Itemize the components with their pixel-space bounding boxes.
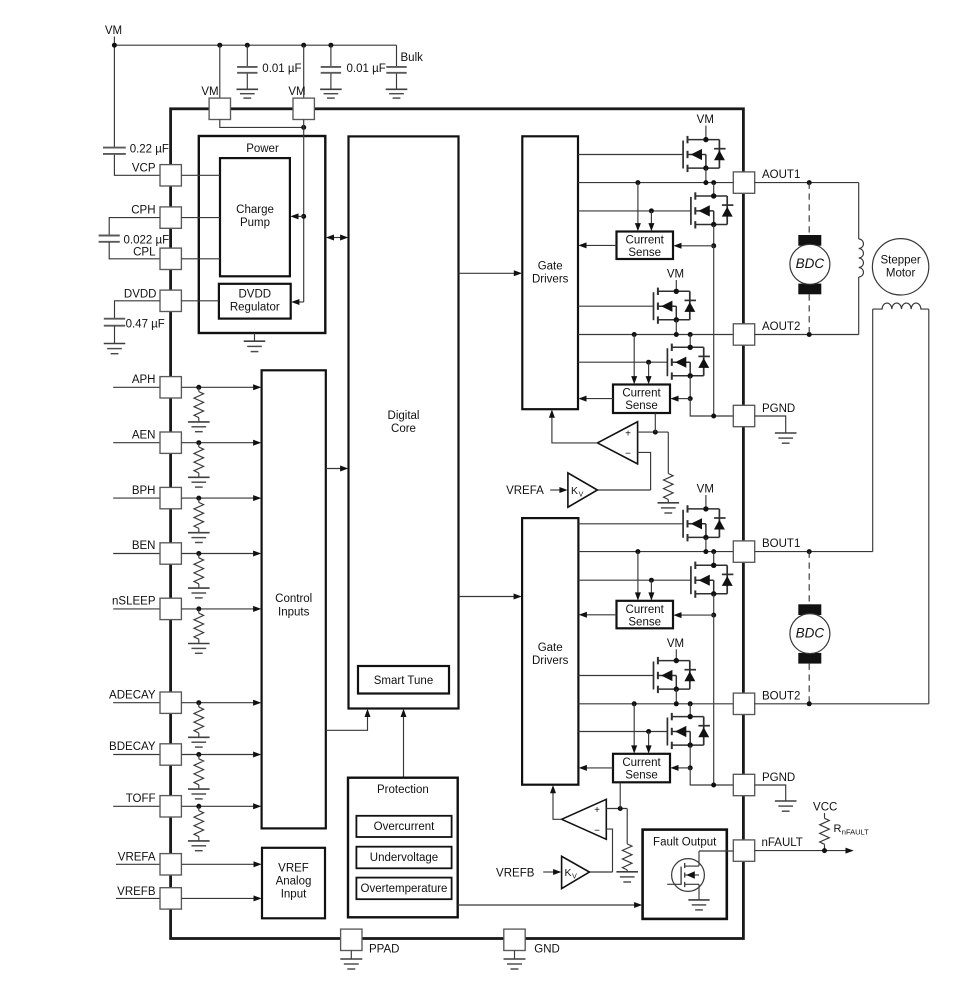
label VREFB xyxy=(117,886,156,898)
chip boundary xyxy=(171,109,744,939)
wire AEN to Control Inputs xyxy=(181,440,261,446)
svg-text:Stepper: Stepper xyxy=(880,255,920,267)
wire sense drop 2 to Current Sense B1 xyxy=(648,580,654,600)
junction AOUT2 BDC tap xyxy=(807,332,812,337)
label Bulk xyxy=(401,52,424,64)
transistor Q7 (B2 high-side) xyxy=(654,657,697,693)
junction BOUT1 at Q6 xyxy=(711,549,716,554)
label VM (Q5) xyxy=(697,484,714,496)
label AOUT2 xyxy=(762,321,800,333)
wire VREFA to VREF block xyxy=(181,861,261,867)
wire AOUT1 external xyxy=(755,182,859,184)
block Power xyxy=(199,136,325,333)
junction ADECAY pulldown xyxy=(196,700,201,705)
svg-text:ADECAY: ADECAY xyxy=(109,689,156,701)
wire VREFB external stub xyxy=(116,897,160,899)
svg-text:BOUT2: BOUT2 xyxy=(762,690,800,702)
pad BOUT1 xyxy=(733,541,754,562)
block Undervoltage xyxy=(356,847,451,869)
wire sense drop 1 to Current Sense B1 xyxy=(635,552,641,601)
wire GND ground stem xyxy=(514,951,516,960)
junction comparator B plus xyxy=(618,806,623,811)
label Overcurrent xyxy=(374,821,436,833)
wire Q2 source to Current Sense A1 xyxy=(673,243,713,249)
gain block Kv A xyxy=(568,473,598,507)
pad VCP xyxy=(160,165,181,186)
wire dashed BDC A bottom xyxy=(808,294,810,334)
wire BOUT1 external xyxy=(755,551,873,553)
gain block Kv B xyxy=(562,856,590,888)
resistor nSLEEP pulldown xyxy=(194,609,204,644)
transistor Q4 (A2 low-side) xyxy=(667,344,710,380)
junction BOUT2 at Q8 xyxy=(688,701,693,706)
wire Current Sense A2 to Gate Drivers xyxy=(578,396,613,402)
block VREF Analog Input xyxy=(262,848,325,919)
label DVDD xyxy=(124,288,157,300)
wire Q8 source down xyxy=(689,745,691,768)
wire AEN external stub xyxy=(113,442,160,444)
label PPAD xyxy=(369,944,399,956)
svg-text:BPH: BPH xyxy=(132,485,156,497)
pad VM2 xyxy=(293,98,314,119)
pad AOUT1 xyxy=(733,172,754,193)
junction AOUT2 sense drop xyxy=(632,332,637,337)
label Charge Pump xyxy=(236,204,274,229)
wire Q8 source to PGND line xyxy=(690,768,733,785)
svg-text:R: R xyxy=(834,823,842,835)
wire VM stub Q5 xyxy=(705,495,707,509)
wire VREFB to VREF block xyxy=(181,895,261,901)
block Current Sense B1 xyxy=(617,601,674,629)
junction VM bus at C1 xyxy=(245,43,250,48)
svg-text:+: + xyxy=(625,429,631,440)
wire ADECAY external stub xyxy=(113,702,160,704)
transistor Q5 (B1 high-side) xyxy=(683,505,726,541)
transistor Q9 fault output xyxy=(667,851,704,900)
svg-text:BDECAY: BDECAY xyxy=(109,741,156,753)
wire BPH to Control Inputs xyxy=(181,495,261,501)
svg-text:+: + xyxy=(594,805,600,816)
svg-text:Drivers: Drivers xyxy=(532,274,569,286)
value label 0.022uF xyxy=(124,235,170,247)
junction AOUT2 at Q3 xyxy=(674,332,679,337)
wire Q6 source down xyxy=(713,594,715,615)
ground ADECAY pulldown xyxy=(188,737,210,747)
wire gate Q1 xyxy=(578,154,683,156)
wire Q8 source to Current Sense B2 xyxy=(670,765,690,771)
svg-text:VREF: VREF xyxy=(278,863,309,875)
wire gate Q7 xyxy=(578,675,653,677)
junction VM bus at VM2 pad drop xyxy=(301,43,306,48)
label GND xyxy=(534,944,560,956)
pad BPH xyxy=(160,487,181,508)
svg-text:Control: Control xyxy=(275,593,312,605)
resistor TOFF pulldown xyxy=(194,806,204,841)
svg-text:K: K xyxy=(571,485,578,497)
label Current Sense B2 xyxy=(622,757,661,782)
wire PGND B external xyxy=(755,785,786,801)
pad CPH xyxy=(160,207,181,228)
transistor Q2 (A1 low-side) xyxy=(691,192,734,228)
wire Q1 source to AOUT1 xyxy=(705,168,707,182)
label BDECAY xyxy=(109,741,156,753)
svg-text:TOFF: TOFF xyxy=(126,793,156,805)
svg-text:BEN: BEN xyxy=(132,540,156,552)
svg-text:nFAULT: nFAULT xyxy=(762,837,803,849)
wire VM stub Q1 xyxy=(705,126,707,141)
wire net BOUT1 xyxy=(578,551,733,553)
wire BOUT2 external xyxy=(755,703,929,705)
svg-text:nFAULT: nFAULT xyxy=(842,828,869,837)
svg-text:0.01 µF: 0.01 µF xyxy=(262,63,301,75)
wire AOUT1 to winding A xyxy=(858,183,860,239)
pad CPL xyxy=(160,248,181,269)
wire comparator B output to Gate Drivers xyxy=(550,785,562,819)
junction AOUT1 BDC tap xyxy=(807,180,812,185)
label VM (Q1) xyxy=(697,114,714,126)
label VM (pad 2) xyxy=(288,86,305,98)
wire sense resistor A stem xyxy=(667,432,669,473)
pad DVDD xyxy=(160,290,181,311)
label PGND A xyxy=(762,403,795,415)
junction VM at charge pump tap xyxy=(301,214,306,219)
wire Digital Core to Gate Drivers A xyxy=(459,270,523,276)
wire comparator A output to Gate Drivers xyxy=(549,410,598,443)
value label 0.47uF xyxy=(126,318,165,330)
wire comparator B plus input xyxy=(606,808,627,810)
svg-text:PPAD: PPAD xyxy=(369,944,399,956)
label Current Sense A1 xyxy=(626,235,665,260)
junction VM bus at C2 xyxy=(328,43,333,48)
wire VM stub Q7 xyxy=(675,649,677,661)
block Control Inputs xyxy=(262,370,326,828)
label nSLEEP xyxy=(112,596,156,608)
svg-text:VM: VM xyxy=(697,114,714,126)
wire Q4 source to PGND line xyxy=(690,399,733,416)
pad nFAULT xyxy=(733,840,754,861)
svg-text:Sense: Sense xyxy=(625,400,658,412)
junction Q8 source sense xyxy=(688,765,693,770)
capacitor C2 0.01uF stem xyxy=(330,45,332,89)
transistor Q6 (B1 low-side) xyxy=(691,562,734,598)
label Fault Output xyxy=(653,837,717,849)
label PGND B xyxy=(762,772,795,784)
svg-text:VREFB: VREFB xyxy=(496,868,535,880)
svg-text:CPH: CPH xyxy=(131,205,155,217)
wire VM to charge pump xyxy=(290,213,303,219)
capacitor C3 bulk plates xyxy=(386,67,406,73)
svg-text:−: − xyxy=(625,449,631,460)
wire Q2 drain from AOUT1 xyxy=(713,183,715,197)
block Current Sense A2 xyxy=(613,385,670,414)
label Power xyxy=(246,143,279,155)
capacitor C5 0.022uF plates xyxy=(99,236,120,242)
junction nFAULT at resistor xyxy=(822,848,827,853)
label Control Inputs xyxy=(275,593,312,619)
wire CPH to charge pump xyxy=(181,217,220,219)
wire Current Sense B2 to comparator B xyxy=(619,782,621,808)
junction AOUT1 at Q2 xyxy=(711,180,716,185)
svg-text:0.01 µF: 0.01 µF xyxy=(347,63,386,75)
wire gate Q3 xyxy=(578,305,654,307)
wire net AOUT1 xyxy=(578,182,733,184)
wire nSLEEP external stub xyxy=(113,608,160,610)
svg-text:VREFA: VREFA xyxy=(506,485,544,497)
wire sense drop 2 to Current Sense B2 xyxy=(646,732,652,754)
ground nSLEEP pulldown xyxy=(188,644,210,654)
wire Q6 source to PGND xyxy=(713,615,715,785)
svg-text:Sense: Sense xyxy=(625,769,658,781)
wire Q4 source to Current Sense A2 xyxy=(670,396,690,402)
label DVDD Regulator xyxy=(230,289,280,314)
svg-text:Gate: Gate xyxy=(538,642,563,654)
pad ADECAY xyxy=(160,692,181,713)
block Overtemperature xyxy=(356,878,451,900)
wire comparator B minus input xyxy=(606,829,612,872)
capacitor C1 0.01uF plates xyxy=(237,67,257,73)
ground below C2 xyxy=(320,89,342,98)
label APH xyxy=(132,374,156,386)
capacitor C1 0.01uF stem xyxy=(246,45,248,89)
ground BDECAY pulldown xyxy=(188,789,210,799)
label BOUT1 xyxy=(762,538,800,550)
wire VREFA external stub xyxy=(116,863,160,865)
wire winding A to AOUT2 xyxy=(858,277,860,335)
label Gate Drivers A xyxy=(532,261,569,286)
wire drop to VM pad 2 xyxy=(303,45,305,98)
wire PGND A external xyxy=(755,416,786,433)
ground AEN pulldown xyxy=(188,477,210,487)
svg-text:APH: APH xyxy=(132,374,156,386)
inductor winding B xyxy=(873,303,929,309)
junction PGND line B xyxy=(711,783,716,788)
wire APH to Control Inputs xyxy=(181,384,261,390)
junction Q6 source sense xyxy=(711,613,716,618)
junction BPH pulldown xyxy=(196,496,201,501)
svg-text:Protection: Protection xyxy=(377,784,429,796)
svg-text:VM: VM xyxy=(697,484,714,496)
wire VM vertical to 0.22uF cap xyxy=(113,37,115,148)
value label 0.01uF (C1) xyxy=(262,63,301,75)
wire APH external stub xyxy=(113,386,160,388)
wire Kv A output xyxy=(597,489,650,491)
svg-text:Current: Current xyxy=(626,604,665,616)
wire dashed BDC A top xyxy=(808,183,810,235)
pad BEN xyxy=(160,543,181,564)
junction Q4 source sense xyxy=(688,396,693,401)
ground BEN pulldown xyxy=(188,588,210,598)
wire sense A to ground xyxy=(667,500,669,503)
wire Control Inputs to Smart Tune xyxy=(326,709,371,731)
svg-text:VM: VM xyxy=(667,269,684,281)
junction AEN pulldown xyxy=(196,440,201,445)
label Overtemperature xyxy=(361,883,448,895)
svg-text:Inputs: Inputs xyxy=(278,607,310,619)
svg-text:V: V xyxy=(579,492,584,499)
block Gate Drivers B xyxy=(522,518,578,785)
label BPH xyxy=(132,485,156,497)
wire C6 to ground xyxy=(114,326,116,344)
op-amp comparator A xyxy=(597,422,637,464)
svg-text:−: − xyxy=(594,826,600,837)
svg-text:V: V xyxy=(572,874,577,881)
wire gate Q5 xyxy=(578,523,683,525)
wire Q4 drain from AOUT2 xyxy=(689,335,691,348)
svg-text:0.22 µF: 0.22 µF xyxy=(130,143,169,155)
value label 0.22uF xyxy=(130,143,169,155)
svg-text:Current: Current xyxy=(626,235,665,247)
resistor sense B xyxy=(622,844,632,870)
motor BDC A xyxy=(790,235,830,294)
pad AOUT2 xyxy=(733,324,754,345)
wire gate Q6 xyxy=(578,579,691,581)
resistor AEN pulldown xyxy=(194,443,204,478)
wire CPL to charge pump xyxy=(181,258,220,260)
wire gate Q8 xyxy=(578,731,667,733)
wire drop to VM pad 1 xyxy=(219,45,221,98)
wire comparator A plus input xyxy=(638,431,669,433)
capacitor C6 0.47uF plates xyxy=(104,319,125,326)
junction nSLEEP pulldown xyxy=(196,606,201,611)
junction BOUT1 BDC tap xyxy=(807,549,812,554)
transistor Q3 (A2 high-side) xyxy=(654,288,697,324)
svg-text:Digital: Digital xyxy=(388,410,420,422)
svg-text:0.022 µF: 0.022 µF xyxy=(124,235,170,247)
ground sense B xyxy=(616,872,638,882)
block Smart Tune xyxy=(358,666,449,694)
wire fault FET drain to nFAULT pad xyxy=(699,850,733,852)
block Charge Pump xyxy=(220,158,290,276)
wire winding B left to BOUT1 xyxy=(872,309,874,551)
ground PGND B xyxy=(775,801,797,811)
wire Current Sense B2 to Gate Drivers xyxy=(579,765,613,771)
pad PGND B xyxy=(733,774,754,795)
wire Q5 source to BOUT1 xyxy=(705,538,707,552)
block Protection xyxy=(348,778,458,918)
svg-text:Undervoltage: Undervoltage xyxy=(370,852,438,864)
junction APH pulldown xyxy=(196,385,201,390)
svg-text:DVDD: DVDD xyxy=(239,289,272,301)
wire nSLEEP to Control Inputs xyxy=(181,606,261,612)
ground TOFF pulldown xyxy=(188,841,210,851)
label RnFAULT xyxy=(834,823,870,837)
wire sense drop 1 to Current Sense A1 xyxy=(635,183,641,232)
wire Protection to Digital Core xyxy=(401,709,407,778)
ground APH pulldown xyxy=(188,422,210,432)
junction VM bus at label drop xyxy=(112,43,117,48)
svg-text:VREFA: VREFA xyxy=(118,851,156,863)
junction gate Q6 sense tap xyxy=(649,578,654,583)
junction BOUT2 at Q7 xyxy=(674,701,679,706)
junction gate Q2 sense tap xyxy=(649,208,654,213)
svg-text:CPL: CPL xyxy=(133,246,156,258)
junction PGND line A xyxy=(711,414,716,419)
resistor BPH pulldown xyxy=(194,498,204,533)
label Smart Tune xyxy=(374,675,433,687)
svg-text:VREFB: VREFB xyxy=(117,886,156,898)
resistor BDECAY pulldown xyxy=(194,755,204,790)
junction VM bus at VM1 pad drop xyxy=(217,43,222,48)
wire Control Inputs to Digital Core xyxy=(326,466,349,472)
wire AOUT2 external xyxy=(755,334,859,336)
svg-text:Charge: Charge xyxy=(236,204,274,216)
svg-text:Smart Tune: Smart Tune xyxy=(374,675,433,687)
wire dashed BDC B top xyxy=(808,552,810,605)
wire TOFF to Control Inputs xyxy=(181,803,261,809)
svg-text:Current: Current xyxy=(622,757,661,769)
wire RnFAULT to nFAULT net xyxy=(824,844,826,850)
junction BDECAY pulldown xyxy=(196,752,201,757)
svg-text:Core: Core xyxy=(391,423,416,435)
wire Current Sense A1 to Gate Drivers xyxy=(578,242,616,248)
label VM (pad 1) xyxy=(201,86,218,98)
block Digital Core xyxy=(349,136,459,708)
wire net BOUT2 xyxy=(578,703,733,705)
ground sense A xyxy=(658,503,680,513)
svg-text:Power: Power xyxy=(246,143,279,155)
capacitor C2 0.01uF plates xyxy=(321,67,341,73)
wire sense drop 1 to Current Sense A2 xyxy=(631,335,637,385)
wire VM to VCP via C4 xyxy=(114,154,159,175)
wire Digital Core to Gate Drivers B xyxy=(459,594,522,600)
wire Current Sense B1 to Gate Drivers xyxy=(579,612,617,618)
wire BDECAY to Control Inputs xyxy=(181,752,261,758)
svg-text:Sense: Sense xyxy=(628,616,661,628)
wire BEN to Control Inputs xyxy=(181,551,261,557)
svg-text:VM: VM xyxy=(288,86,305,98)
block Fault Output xyxy=(643,830,727,919)
junction gate Q8 sense tap xyxy=(646,729,651,734)
wire Q4 source down xyxy=(689,376,691,399)
pad VREFB xyxy=(160,888,181,909)
label Protection xyxy=(377,784,429,796)
wire sense resistor B stem xyxy=(626,809,628,844)
ground GND pad xyxy=(504,959,526,969)
transistor Q1 (A1 high-side) xyxy=(683,136,726,172)
svg-text:DVDD: DVDD xyxy=(124,288,157,300)
svg-text:AOUT1: AOUT1 xyxy=(762,169,800,181)
wire BPH external stub xyxy=(113,497,160,499)
pad GND xyxy=(504,929,525,950)
wire sense B to ground xyxy=(626,870,628,872)
ground PGND A xyxy=(775,433,797,443)
label ADECAY xyxy=(109,689,156,701)
wire VREFA to Kv A xyxy=(550,487,567,493)
wire VM2 pad down to regulators xyxy=(303,120,305,303)
svg-text:Overcurrent: Overcurrent xyxy=(374,821,436,833)
junction BOUT2 sense drop xyxy=(632,701,637,706)
wire C5 to CPL xyxy=(109,242,160,259)
junction BOUT1 at Q5 xyxy=(703,549,708,554)
wire CPH to C5 xyxy=(109,218,160,236)
wire VREFB to Kv B xyxy=(543,869,561,875)
wire VM top bus xyxy=(114,44,396,46)
wire VCP to charge pump xyxy=(181,174,220,176)
wire Current Sense A2 to comparator A xyxy=(654,413,656,432)
wire Q6 drain from BOUT1 xyxy=(713,552,715,566)
wire BEN external stub xyxy=(113,553,160,555)
label BEN xyxy=(132,540,156,552)
svg-text:GND: GND xyxy=(534,944,560,956)
svg-text:Sense: Sense xyxy=(628,247,661,259)
wire winding B right to BOUT2 xyxy=(928,309,930,704)
label Undervoltage xyxy=(370,852,438,864)
label AEN xyxy=(132,429,156,441)
svg-text:Drivers: Drivers xyxy=(532,655,569,667)
svg-text:BOUT1: BOUT1 xyxy=(762,538,800,550)
svg-text:Bulk: Bulk xyxy=(401,52,424,64)
svg-text:VCC: VCC xyxy=(813,802,837,814)
